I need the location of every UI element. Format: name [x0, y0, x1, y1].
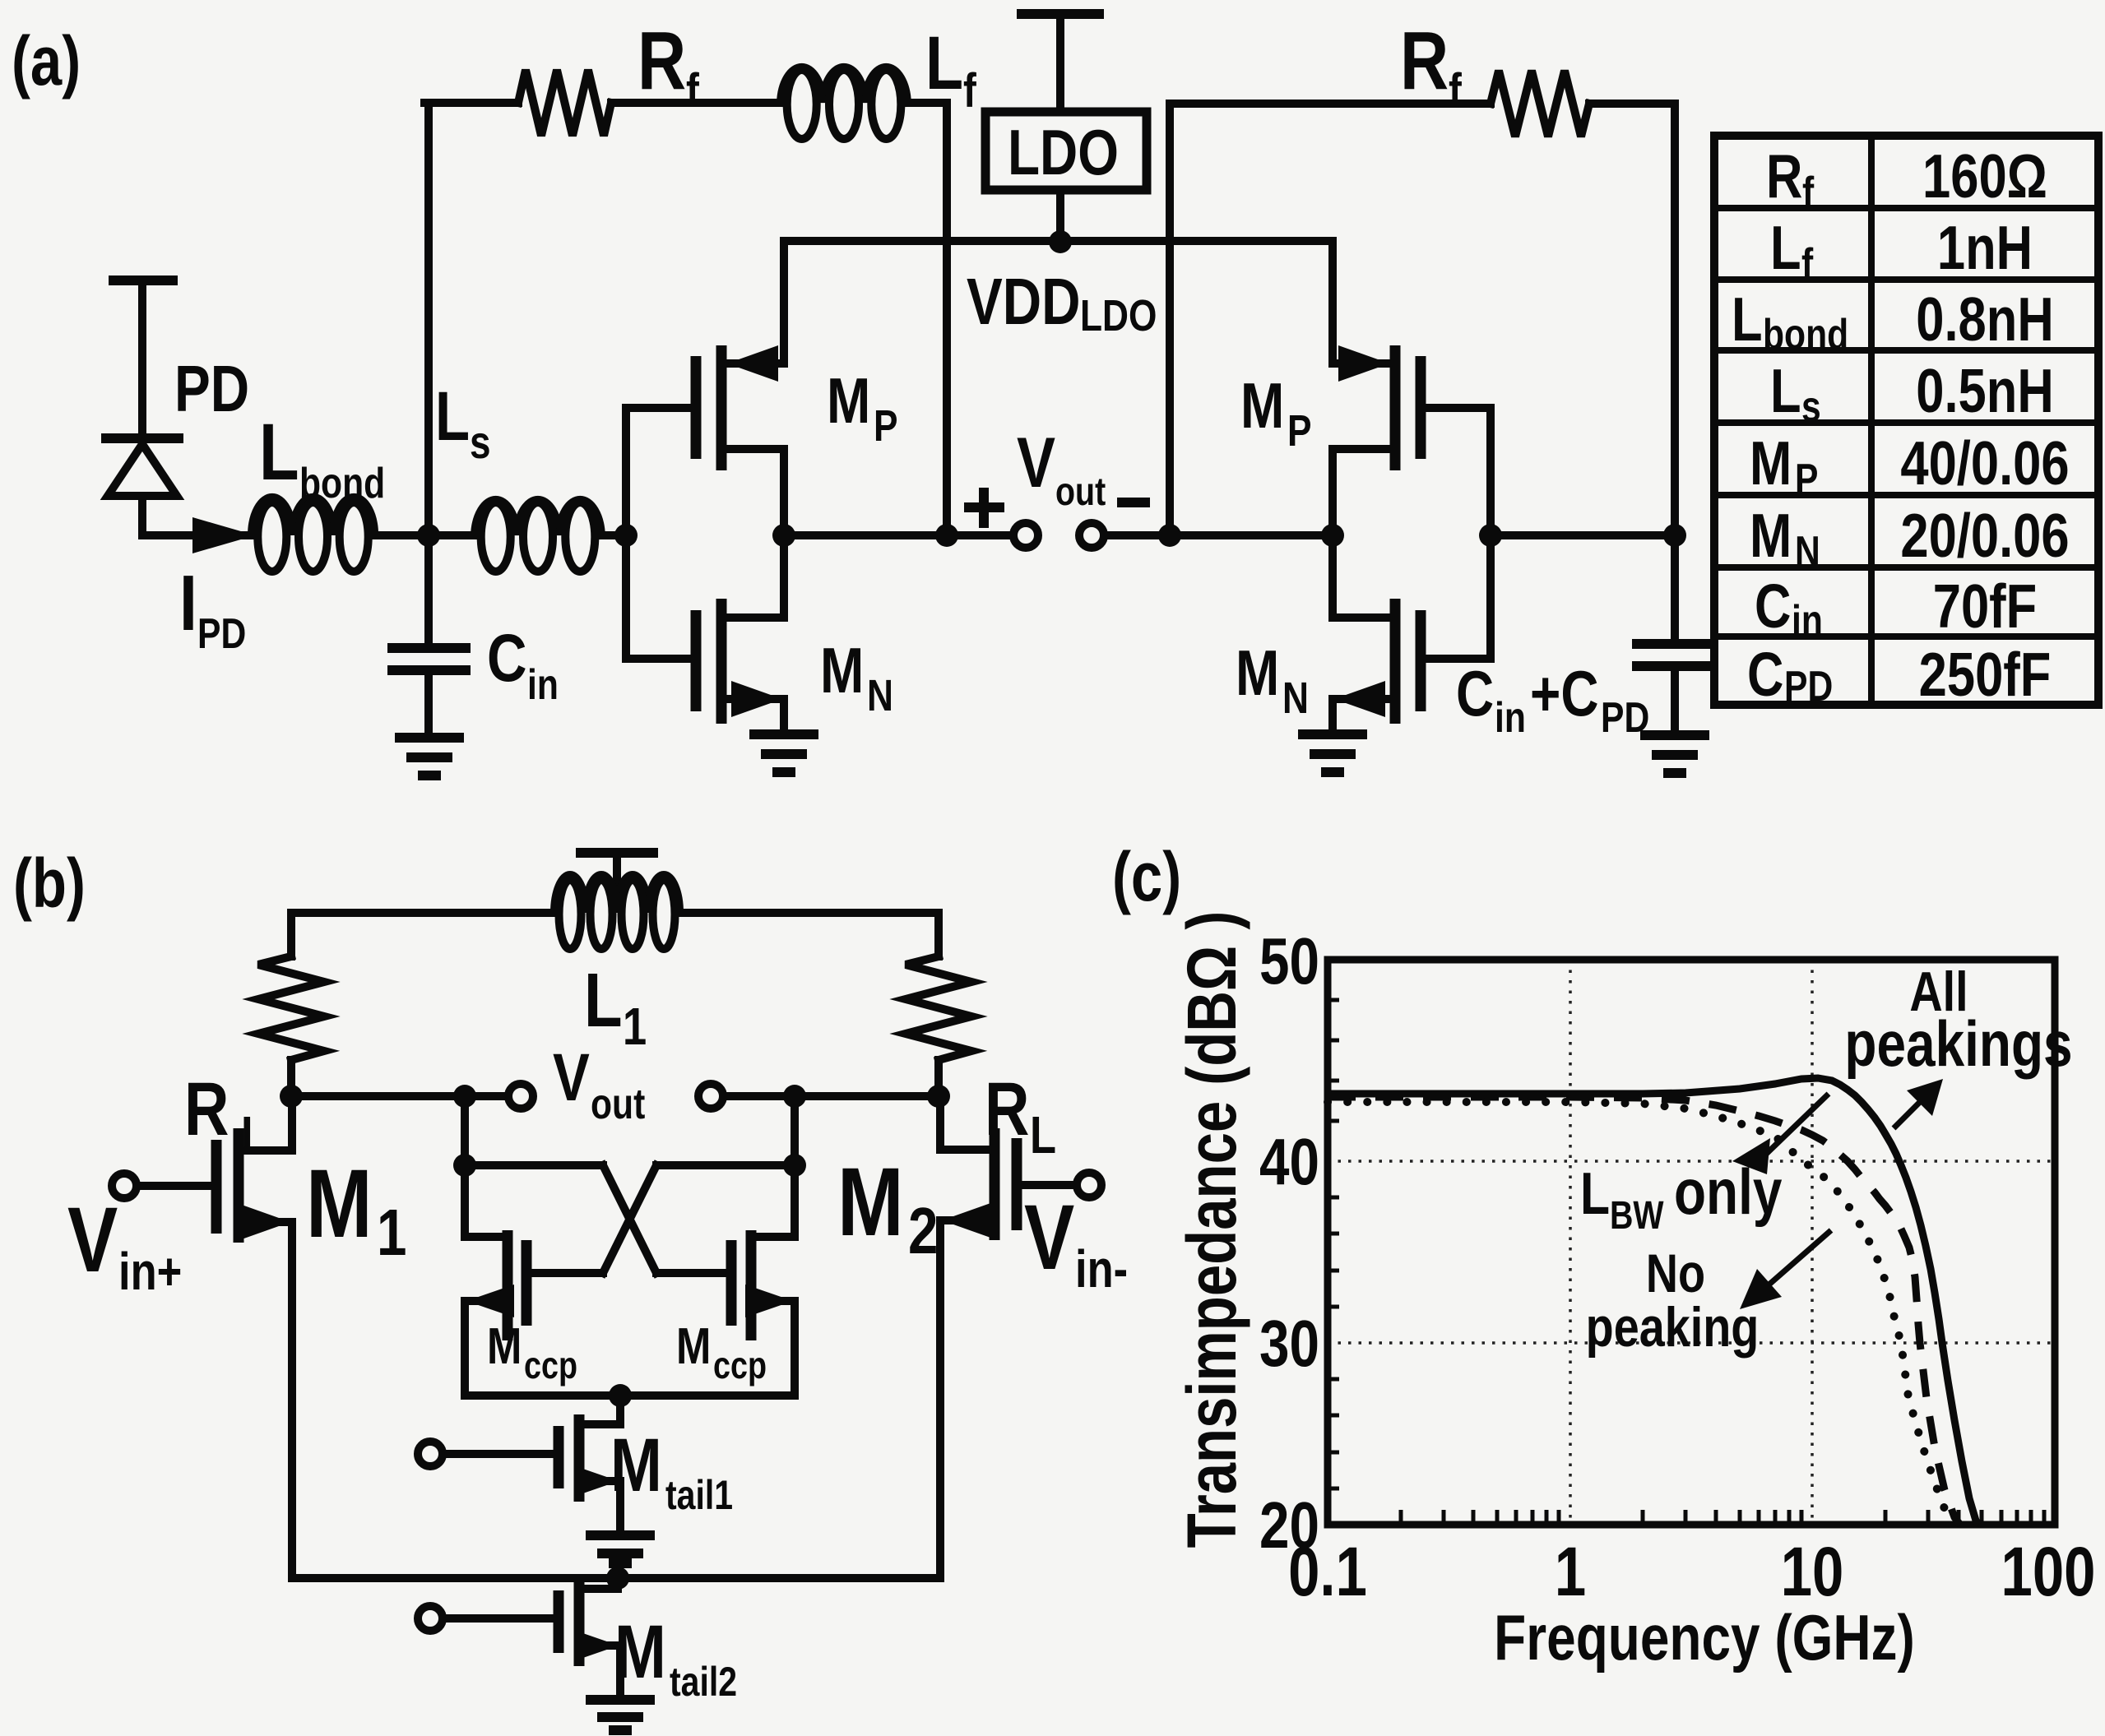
svg-text:C: C — [1747, 640, 1783, 709]
node B (amp input, gate bracket) — [614, 524, 638, 547]
wire right feedback column — [1170, 104, 1491, 535]
svg-text:L: L — [435, 378, 470, 456]
svg-text:160Ω: 160Ω — [1922, 141, 2047, 211]
svg-text:30: 30 — [1259, 1307, 1319, 1381]
svg-text:V: V — [1024, 1185, 1074, 1289]
ground (Cin) — [400, 738, 459, 775]
wire RL bottoms to output line — [291, 1060, 939, 1096]
ground (right MN) — [1303, 734, 1362, 772]
svg-text:100: 100 — [2001, 1534, 2096, 1611]
plot gridline x=10GHz — [1811, 960, 1814, 1525]
svg-text:M: M — [1750, 428, 1792, 498]
terminal Vout+ (b) — [508, 1084, 533, 1109]
inductor Lbond — [252, 498, 374, 572]
plot frame — [1328, 960, 2055, 1525]
svg-text:1: 1 — [1555, 1534, 1586, 1611]
svg-text:R: R — [1766, 141, 1802, 211]
plus sign — [969, 493, 999, 523]
terminal Vin- — [1022, 1173, 1101, 1197]
svg-text:10: 10 — [1781, 1534, 1844, 1611]
inductor Ls — [475, 500, 601, 572]
svg-text:V: V — [67, 1187, 118, 1291]
x minor ticks — [1401, 1510, 2044, 1525]
label Ls — [435, 378, 491, 468]
svg-text:L: L — [241, 1106, 267, 1164]
svg-text:in: in — [1792, 597, 1823, 645]
svg-text:bond: bond — [1763, 311, 1848, 359]
node right amp output — [1321, 524, 1344, 547]
svg-text:f: f — [1449, 65, 1462, 118]
table row Ls 0.5nH — [1770, 356, 2054, 431]
svg-text:out: out — [591, 1081, 645, 1128]
wire right input line — [1491, 531, 1675, 539]
wire M1 drain up — [288, 1096, 296, 1150]
wire cross-couple left to right gate — [465, 1165, 727, 1273]
svg-text:L: L — [1732, 285, 1763, 354]
svg-text:(c): (c) — [1112, 839, 1181, 916]
node feedback join (left) — [935, 524, 958, 547]
svg-text:ccp: ccp — [524, 1344, 577, 1386]
svg-text:C: C — [487, 620, 527, 696]
wire tail rail to Mtail2 — [584, 1578, 618, 1589]
label Vout (a) — [1017, 423, 1106, 514]
svg-text:tail2: tail2 — [670, 1659, 737, 1705]
label Vin+ — [67, 1187, 182, 1301]
annotation LBW only — [1580, 1156, 1783, 1238]
svg-text:N: N — [1282, 674, 1309, 723]
node RL left / M1 drain — [280, 1085, 303, 1108]
svg-text:1nH: 1nH — [1937, 213, 2033, 282]
wire right MP source to VDD rail — [1328, 241, 1337, 363]
ground (Mtail2) — [591, 1700, 650, 1730]
svg-text:M: M — [1240, 370, 1284, 442]
svg-text:P: P — [1795, 456, 1818, 503]
table row CPD 250fF — [1747, 640, 2051, 711]
svg-text:LDO: LDO — [1080, 291, 1157, 340]
y minor ticks — [1328, 1000, 1339, 1488]
label MN (right) — [1236, 637, 1309, 723]
svg-text:M: M — [1750, 501, 1792, 570]
transistor Mccp (right) — [731, 1230, 795, 1340]
block LDO — [985, 112, 1147, 190]
node ccp right top — [783, 1085, 806, 1108]
svg-text:VDD: VDD — [967, 265, 1080, 339]
svg-text:(a): (a) — [12, 23, 81, 100]
label RL (left) — [184, 1067, 267, 1164]
svg-text:1: 1 — [623, 998, 647, 1056]
table row Rf 160ohm — [1766, 141, 2047, 216]
node ccp left top — [453, 1085, 476, 1108]
wire Vout line (b) — [291, 1092, 939, 1100]
node Mtail2 drain — [606, 1567, 629, 1590]
wire top rail (b) — [291, 913, 939, 956]
terminal Mtail2 gate — [418, 1606, 554, 1631]
svg-text:L: L — [1770, 213, 1801, 282]
svg-text:Transimpedance (dBΩ ): Transimpedance (dBΩ ) — [1174, 911, 1251, 1549]
svg-text:N: N — [1795, 528, 1820, 576]
label VDDLDO — [967, 265, 1157, 340]
arrow to LBW only curve — [1732, 1094, 1829, 1174]
label Rf (right) — [1400, 15, 1462, 118]
svg-text:0.8nH: 0.8nH — [1916, 285, 2053, 354]
svg-text:BW: BW — [1610, 1193, 1664, 1238]
resistor RL (right) — [906, 956, 971, 1060]
node ccp left cross — [453, 1154, 476, 1177]
plot gridline x=1GHz — [1569, 960, 1572, 1525]
svg-text:250fF: 250fF — [1919, 640, 2052, 709]
label Mtail1 — [610, 1423, 733, 1518]
svg-text:f: f — [1802, 169, 1814, 216]
svg-text:70fF: 70fF — [1933, 572, 2037, 641]
label M2 — [837, 1147, 938, 1268]
label MP (right) — [1240, 370, 1312, 456]
wire gate bracket left amp — [626, 408, 691, 659]
svg-text:L: L — [584, 958, 623, 1044]
svg-text:C: C — [1755, 572, 1791, 641]
svg-text:ccp: ccp — [713, 1344, 767, 1386]
wire Rf to right input column — [1589, 104, 1675, 535]
wire cross-couple right to left gate — [531, 1165, 795, 1273]
wire ccp right column upper — [791, 1096, 799, 1237]
arrow to All peakings curve — [1894, 1079, 1943, 1128]
transistor MP (left PMOS) — [696, 345, 784, 470]
node RL right / M2 drain — [927, 1085, 950, 1108]
label L1 — [584, 958, 647, 1056]
wire left output line to Vout+ — [784, 531, 1013, 539]
transistor MP (right PMOS) — [1333, 345, 1421, 470]
transistor MN (left NMOS) — [696, 599, 784, 730]
node ccp tail — [609, 1384, 632, 1407]
plot gridline y=30 — [1328, 1341, 2055, 1345]
supply bar (L1 center tap) — [581, 853, 653, 887]
svg-text:bond: bond — [299, 460, 385, 507]
node VDDLDO — [1049, 230, 1072, 253]
svg-text:s: s — [1801, 383, 1821, 431]
label RL (right) — [985, 1067, 1056, 1164]
label Cin — [487, 620, 559, 709]
supply bar (LDO) — [1022, 14, 1099, 112]
curve solid All peakings — [1328, 1078, 1978, 1525]
terminal Vout+ — [1013, 523, 1038, 548]
wire top left to Rf — [424, 99, 518, 107]
curve dotted No peaking — [1328, 1102, 1952, 1525]
svg-text:LDO: LDO — [1008, 117, 1119, 188]
label Mtail2 — [614, 1609, 737, 1705]
terminal Mtail1 gate — [418, 1442, 554, 1466]
svg-text:C: C — [1456, 658, 1494, 729]
node right feedback join — [1158, 524, 1181, 547]
transistor M1 — [216, 1128, 292, 1243]
svg-text:M: M — [827, 365, 870, 437]
label Vout (b) — [553, 1039, 645, 1128]
svg-text:in: in — [527, 661, 559, 709]
current arrow IPD — [192, 517, 255, 553]
svg-text:f: f — [963, 65, 976, 118]
svg-text:R: R — [638, 15, 686, 107]
svg-text:V: V — [553, 1039, 590, 1115]
svg-text:PD: PD — [1784, 663, 1833, 711]
svg-text:peakings: peakings — [1844, 1008, 2072, 1080]
annotation All peakings — [1844, 961, 2072, 1081]
svg-text:0.5nH: 0.5nH — [1916, 356, 2053, 425]
svg-text:N: N — [867, 671, 893, 720]
svg-text:(b): (b) — [13, 845, 86, 923]
svg-text:M: M — [487, 1318, 522, 1375]
svg-text:peaking: peaking — [1586, 1297, 1760, 1359]
wire LDO to VDD rail — [1056, 190, 1064, 243]
transistor Mtail2 — [559, 1579, 620, 1666]
svg-text:R: R — [184, 1067, 229, 1151]
resistor Rf (right) — [1491, 71, 1589, 137]
wire MP source to VDD rail — [780, 241, 788, 363]
table row MN 20/0.06 — [1750, 501, 2070, 576]
svg-text:40/0.06: 40/0.06 — [1900, 428, 2069, 498]
node left amp output — [772, 524, 795, 547]
wire M2 drain up — [936, 1096, 944, 1150]
wire Mtail1 source down — [616, 1481, 624, 1531]
svg-text:I: I — [179, 559, 197, 647]
label Vin- — [1024, 1185, 1128, 1299]
transistor MN (right NMOS) — [1333, 599, 1421, 730]
svg-text:in+: in+ — [118, 1243, 182, 1301]
photodiode PD — [106, 438, 179, 535]
svg-text:1: 1 — [377, 1196, 406, 1270]
svg-text:2: 2 — [908, 1194, 938, 1268]
curve dashed LBW only — [1328, 1097, 1960, 1525]
wire PD to Lbond — [142, 531, 252, 539]
svg-text:L: L — [925, 21, 963, 105]
svg-text:tail1: tail1 — [665, 1472, 733, 1518]
svg-text:0.1: 0.1 — [1288, 1534, 1367, 1611]
terminal Vout- — [1079, 523, 1104, 548]
inductor Lf — [781, 67, 907, 139]
svg-text:L: L — [259, 408, 299, 497]
inductor L1 — [554, 875, 679, 949]
minus sign — [1122, 498, 1145, 507]
svg-text:M: M — [306, 1149, 373, 1257]
label Mccp (left) — [487, 1318, 577, 1386]
wire ccp left column upper — [461, 1096, 469, 1237]
label MN (left) — [820, 635, 893, 720]
label Lf — [925, 21, 976, 118]
svg-text:in-: in- — [1075, 1240, 1128, 1299]
wire M1 source down to tail rail — [288, 1222, 296, 1578]
svg-text:M: M — [837, 1147, 904, 1256]
node right gate join — [1479, 524, 1502, 547]
wire MP/MN drain column (left output) — [780, 449, 788, 618]
wire Mtail2 source down — [616, 1646, 624, 1696]
table row Lbond 0.8nH — [1732, 285, 2054, 359]
resistor RL (left) — [258, 956, 324, 1060]
wire Ls to gate node B — [601, 531, 626, 539]
wire ccp right source down — [791, 1301, 799, 1396]
transistor Mtail1 — [559, 1414, 620, 1502]
svg-text:out: out — [1055, 470, 1106, 514]
svg-text:M: M — [820, 635, 864, 706]
svg-text:V: V — [1017, 423, 1055, 502]
capacitor Cin+CPD — [1637, 535, 1708, 731]
svg-text:L: L — [1030, 1106, 1056, 1164]
ground (Mtail1) — [591, 1535, 650, 1563]
wire Rf to Lf — [611, 99, 781, 107]
svg-text:40: 40 — [1259, 1125, 1319, 1199]
label IPD — [179, 559, 246, 658]
table row MP 40/0.06 — [1750, 428, 2070, 503]
label Cin+CPD — [1456, 658, 1649, 742]
VDD rail — [784, 237, 1333, 245]
svg-text:s: s — [470, 417, 491, 468]
svg-text:f: f — [1801, 240, 1813, 288]
table of component values — [1714, 136, 2098, 705]
svg-text:PD: PD — [197, 610, 246, 658]
svg-text:P: P — [874, 401, 898, 451]
label Lbond — [259, 408, 385, 508]
wire ccp tail to Mtail1 — [584, 1396, 620, 1424]
transistor Mccp (left) — [465, 1230, 526, 1340]
svg-text:M: M — [676, 1318, 711, 1375]
table row Cin 70fF — [1755, 572, 2037, 645]
capacitor Cin — [392, 535, 466, 734]
ground (Cin+CPD) — [1645, 735, 1704, 773]
svg-text:PD: PD — [174, 352, 249, 426]
wire Lf to output node (left feedback down) — [907, 103, 947, 535]
label Rf (left) — [638, 15, 699, 118]
node A (TIA input) — [417, 524, 440, 547]
svg-text:f: f — [686, 65, 699, 118]
svg-text:20/0.06: 20/0.06 — [1900, 501, 2069, 570]
node ccp right cross — [783, 1154, 806, 1177]
svg-text:50: 50 — [1259, 924, 1319, 998]
wire Lbond to node A — [374, 531, 475, 539]
transistor M2 — [940, 1128, 1017, 1240]
svg-text:+C: +C — [1530, 658, 1599, 729]
ground (left MN) — [754, 734, 814, 772]
svg-text:L: L — [1770, 356, 1801, 425]
svg-text:L: L — [1580, 1160, 1610, 1226]
svg-text:M: M — [1236, 637, 1279, 709]
node right input cap join — [1663, 524, 1686, 547]
svg-text:Frequency (GHz): Frequency (GHz) — [1494, 1602, 1915, 1674]
terminal Vin+ — [112, 1174, 211, 1198]
label Mccp (right) — [676, 1318, 767, 1386]
wire right gate bracket — [1426, 408, 1491, 659]
table row Lf 1nH — [1770, 213, 2033, 288]
wire M2 source down to tail rail — [936, 1220, 944, 1578]
resistor Rf (left) — [518, 70, 611, 136]
svg-text:P: P — [1287, 406, 1312, 456]
wire bottom tail rail — [292, 1574, 940, 1582]
wire Vout- to right amp output — [1105, 531, 1333, 539]
label M1 — [306, 1149, 406, 1270]
svg-text:R: R — [1400, 15, 1449, 107]
svg-text:in: in — [1495, 694, 1526, 742]
wire ccp bottom rail — [465, 1391, 795, 1400]
photodiode supply bar — [114, 280, 173, 435]
svg-text:No: No — [1646, 1243, 1705, 1303]
label MP (left) — [827, 365, 898, 451]
terminal Vout- (b) — [698, 1084, 723, 1109]
annotation No peaking — [1586, 1243, 1760, 1359]
wire feedback column left — [424, 103, 433, 535]
wire right drain column — [1328, 449, 1337, 618]
plot gridline y=40 — [1328, 1160, 2055, 1163]
wire ccp left source down — [461, 1301, 469, 1396]
arrow to No peaking curve — [1740, 1230, 1831, 1309]
